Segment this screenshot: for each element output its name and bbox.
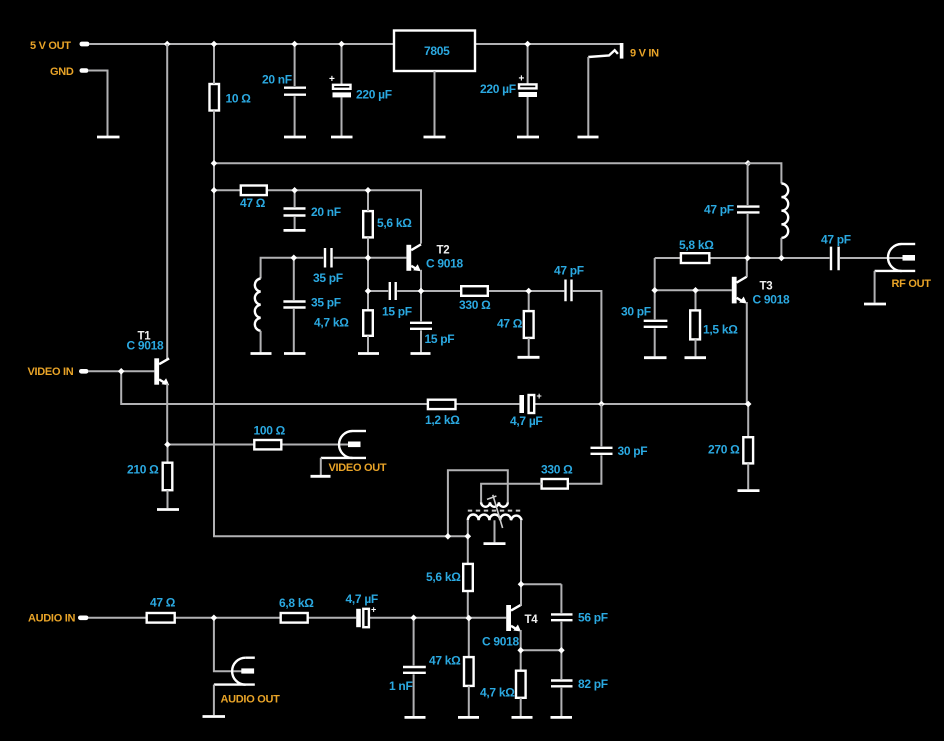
- wire VIDEO IN to base: [88, 370, 154, 372]
- node 5V OUT terminal: [30, 40, 90, 52]
- capacitor C 220 uF input: [329, 44, 392, 136]
- svg-text:4,7 µF: 4,7 µF: [346, 592, 378, 606]
- ground coil osc: [251, 352, 272, 355]
- ground 30 pF T3: [644, 356, 667, 359]
- resistor R 47 kOhm: [429, 618, 474, 716]
- svg-text:220 µF: 220 µF: [356, 88, 392, 102]
- ground 4,7k osc: [358, 352, 379, 355]
- svg-text:6,8 kΩ: 6,8 kΩ: [279, 596, 314, 610]
- wire RF coil bottom: [780, 238, 782, 258]
- ground 210 Ohm: [157, 508, 179, 511]
- svg-text:20 nF: 20 nF: [311, 205, 341, 219]
- svg-text:C 9018: C 9018: [127, 339, 165, 353]
- svg-text:1,2 kΩ: 1,2 kΩ: [425, 413, 460, 427]
- wire T3 emitter down: [746, 302, 748, 404]
- svg-text:330 Ω: 330 Ω: [541, 463, 573, 477]
- svg-text:GND: GND: [50, 66, 74, 78]
- svg-text:VIDEO OUT: VIDEO OUT: [329, 462, 387, 474]
- resistor R 5,8 kOhm: [679, 238, 714, 263]
- svg-text:35 pF: 35 pF: [311, 296, 341, 310]
- svg-text:+: +: [329, 74, 335, 85]
- wire 30pF video branch x601: [600, 404, 602, 446]
- wire T4 emitter node: [521, 630, 562, 671]
- inductor L osc: [255, 279, 261, 331]
- wire 9V jack ground lead: [587, 57, 589, 136]
- inductor L RF: [781, 184, 788, 238]
- wire 5,8k left down to base: [654, 258, 656, 290]
- ground 20 nF osc: [284, 229, 306, 232]
- ground AUDIO OUT: [203, 715, 226, 718]
- connector RF OUT: [875, 244, 932, 290]
- resistor R 5,6 kOhm osc: [363, 211, 412, 237]
- wire 5V rail left: [89, 43, 394, 45]
- junction dots oscillator: [211, 160, 752, 294]
- ground 15 pF: [411, 352, 431, 355]
- svg-text:15 pF: 15 pF: [425, 332, 455, 346]
- ground 20 nF: [284, 136, 306, 139]
- svg-text:47 pF: 47 pF: [704, 203, 734, 217]
- svg-text:5,8 kΩ: 5,8 kΩ: [679, 238, 714, 252]
- resistor R 330 Ohm video: [541, 463, 573, 489]
- svg-text:20 nF: 20 nF: [262, 73, 292, 87]
- transformer TR core dashed: [468, 510, 521, 512]
- wire secondary right down: [520, 520, 522, 606]
- wire 5,6k leads: [367, 190, 369, 310]
- wire emitter line to 330: [421, 291, 601, 404]
- wire GND input lead: [88, 71, 108, 137]
- ground 1,5 kOhm: [685, 356, 707, 359]
- capacitor C 47 pF RF out: [821, 233, 851, 271]
- trimmer arrow: [487, 495, 503, 528]
- transformer TR primary: [481, 502, 508, 507]
- wire T1 emitter down: [166, 384, 168, 445]
- ground RF OUT: [864, 303, 886, 306]
- svg-text:82 pF: 82 pF: [578, 677, 608, 691]
- wire 100 Ohm line: [168, 444, 349, 446]
- ground 220 uF input: [331, 136, 353, 139]
- wire RF OUT ground leg: [874, 271, 876, 303]
- svg-text:4,7 kΩ: 4,7 kΩ: [314, 316, 349, 330]
- wire primary loop: [448, 470, 508, 536]
- svg-text:330 Ω: 330 Ω: [459, 298, 491, 312]
- svg-text:T2: T2: [437, 245, 450, 257]
- wire T3 base: [655, 289, 732, 291]
- wire T4 collector node: [521, 584, 561, 606]
- ground VIDEO OUT: [311, 475, 331, 478]
- node 9V IN jack: [588, 43, 659, 60]
- resistor R 5,6 kOhm audio: [426, 564, 473, 618]
- wire rail2 to RF coil: [748, 163, 781, 183]
- ground GND input: [97, 136, 120, 139]
- wire T2 emitter down: [420, 270, 422, 291]
- ground 9V jack: [578, 136, 599, 139]
- capacitor C 47 pF tank: [704, 163, 760, 258]
- transformer TR secondary: [468, 514, 522, 520]
- resistor R 47 Ohm osc: [240, 186, 267, 211]
- junction dots top rail: [164, 41, 531, 48]
- ground 47 Ohm shunt: [518, 356, 540, 359]
- ground 47 kOhm: [458, 716, 479, 719]
- connector VIDEO OUT: [321, 431, 387, 474]
- node VIDEO IN terminal: [28, 366, 89, 378]
- resistor R 6,8 kOhm: [279, 596, 314, 623]
- resistor R 47 Ohm audio: [147, 596, 176, 623]
- svg-text:VIDEO IN: VIDEO IN: [28, 366, 74, 378]
- svg-text:7805: 7805: [424, 44, 450, 58]
- capacitor C 35 pF shunt: [283, 258, 340, 353]
- resistor R 10 Ohm: [210, 84, 252, 111]
- svg-text:210 Ω: 210 Ω: [127, 463, 159, 477]
- capacitor C 30 pF video: [591, 444, 648, 458]
- capacitor C 4,7 uF video: [510, 391, 542, 428]
- ground 7805: [424, 136, 446, 139]
- resistor R 1,5 kOhm: [690, 290, 738, 356]
- wire rail2: [214, 162, 748, 164]
- wire base node down and line y404: [121, 371, 748, 404]
- svg-text:220 µF: 220 µF: [480, 82, 516, 96]
- svg-text:47 pF: 47 pF: [554, 264, 584, 278]
- wire base left to coil: [261, 258, 324, 279]
- transistor Q T2: [406, 244, 463, 271]
- svg-text:C 9018: C 9018: [482, 635, 520, 649]
- wire coil bottom: [260, 331, 262, 352]
- svg-text:T4: T4: [525, 614, 539, 626]
- capacitor C 4,7 uF audio: [346, 592, 378, 627]
- svg-text:4,7 µF: 4,7 µF: [510, 414, 542, 428]
- wire long vertical x214 to transformer: [214, 111, 468, 537]
- transistor Q T1: [127, 331, 170, 386]
- resistor R 4,7 kOhm audio: [480, 671, 526, 716]
- svg-text:T3: T3: [760, 281, 773, 293]
- capacitor C 1 nF: [389, 618, 426, 716]
- ground 4,7 kOhm audio: [512, 716, 533, 719]
- resistor R 4,7 kOhm osc: [314, 310, 373, 336]
- node GND terminal: [50, 66, 89, 78]
- svg-text:RF OUT: RF OUT: [892, 278, 932, 290]
- capacitor C 15 pF shunt: [410, 291, 454, 352]
- svg-text:47 Ω: 47 Ω: [240, 196, 266, 210]
- capacitor C 35 pF series: [313, 248, 343, 285]
- svg-text:9 V IN: 9 V IN: [630, 48, 659, 60]
- wire T3 collector up: [746, 258, 748, 277]
- svg-text:47 Ω: 47 Ω: [150, 596, 176, 610]
- ground 35 pF shunt: [284, 352, 306, 355]
- wire AUDIO OUT ground leg: [213, 685, 215, 716]
- ground 270 Ohm: [738, 489, 760, 492]
- svg-text:47 kΩ: 47 kΩ: [429, 654, 461, 668]
- junction dots RF: [651, 255, 784, 294]
- svg-text:1,5 kΩ: 1,5 kΩ: [703, 323, 738, 337]
- wire secondary left down: [467, 520, 469, 564]
- svg-text:+: +: [371, 605, 376, 615]
- capacitor C 220 uF output: [480, 44, 537, 136]
- junction dots audio: [211, 581, 565, 654]
- wire AUDIO OUT feed: [214, 618, 242, 671]
- svg-text:47 Ω: 47 Ω: [497, 317, 523, 331]
- svg-text:5 V OUT: 5 V OUT: [30, 40, 71, 52]
- ground 1 nF: [405, 716, 426, 719]
- capacitor C 47 pF series mid: [554, 264, 584, 302]
- wire 330 Ohm to primary: [481, 484, 541, 502]
- ground transformer tap: [484, 542, 506, 545]
- svg-text:1 nF: 1 nF: [389, 679, 412, 693]
- svg-text:30 pF: 30 pF: [618, 444, 648, 458]
- wire 30pF to 330 Ohm: [568, 455, 602, 484]
- svg-text:35 pF: 35 pF: [313, 271, 343, 285]
- wire secondary center tap: [494, 520, 496, 542]
- junction dots transformer: [445, 533, 471, 540]
- svg-text:100 Ω: 100 Ω: [254, 424, 286, 438]
- resistor R 47 Ohm shunt: [497, 291, 534, 356]
- wire VIDEO OUT ground leg: [320, 458, 322, 475]
- capacitor C 30 pF T3: [621, 290, 667, 356]
- wire 4,7k bottom: [367, 336, 369, 353]
- svg-text:5,6 kΩ: 5,6 kΩ: [377, 216, 412, 230]
- svg-text:4,7 kΩ: 4,7 kΩ: [480, 686, 515, 700]
- capacitor C 56 pF: [551, 584, 608, 650]
- resistor R 1,2 kOhm: [425, 400, 460, 427]
- svg-text:+: +: [537, 391, 542, 401]
- regulator U1 7805: [394, 31, 475, 72]
- wire branch y190.3: [214, 190, 421, 243]
- wire 7805 ground pin: [434, 71, 436, 136]
- wire 10 Ohm top lead: [213, 44, 215, 84]
- svg-text:15 pF: 15 pF: [382, 305, 412, 319]
- capacitor C 20 nF osc: [284, 190, 341, 229]
- wire T1 collector feed x167: [166, 44, 168, 359]
- svg-text:AUDIO IN: AUDIO IN: [28, 613, 75, 625]
- ground 82 pF: [551, 716, 573, 719]
- resistor R 270 Ohm: [708, 404, 753, 489]
- capacitor C 82 pF: [551, 650, 608, 716]
- svg-text:56 pF: 56 pF: [578, 611, 608, 625]
- svg-text:10 Ω: 10 Ω: [226, 92, 252, 106]
- svg-text:C 9018: C 9018: [426, 257, 464, 271]
- svg-text:C 9018: C 9018: [753, 293, 791, 307]
- wire 5V rail right: [475, 43, 620, 45]
- svg-text:30 pF: 30 pF: [621, 305, 651, 319]
- transistor Q T4: [482, 605, 538, 649]
- svg-text:5,6 kΩ: 5,6 kΩ: [426, 570, 461, 584]
- ground 220 uF output: [517, 136, 539, 139]
- svg-text:AUDIO OUT: AUDIO OUT: [221, 694, 281, 706]
- connector AUDIO OUT: [214, 658, 280, 706]
- node AUDIO IN terminal: [28, 613, 89, 625]
- resistor R 330 Ohm osc out: [459, 286, 491, 312]
- svg-text:47 pF: 47 pF: [821, 233, 851, 247]
- wire collector line y258: [655, 257, 903, 259]
- transistor Q T3: [732, 277, 790, 307]
- capacitor C 15 pF series: [368, 282, 421, 319]
- svg-text:+: +: [519, 74, 525, 85]
- capacitor 20 nF input: [262, 44, 306, 136]
- wire T2 base: [334, 257, 407, 259]
- wire audio line: [89, 617, 507, 619]
- junction dots video: [118, 368, 752, 448]
- resistor R 210 Ohm: [127, 445, 172, 509]
- resistor R 100 Ohm: [254, 424, 286, 450]
- svg-text:270 Ω: 270 Ω: [708, 443, 740, 457]
